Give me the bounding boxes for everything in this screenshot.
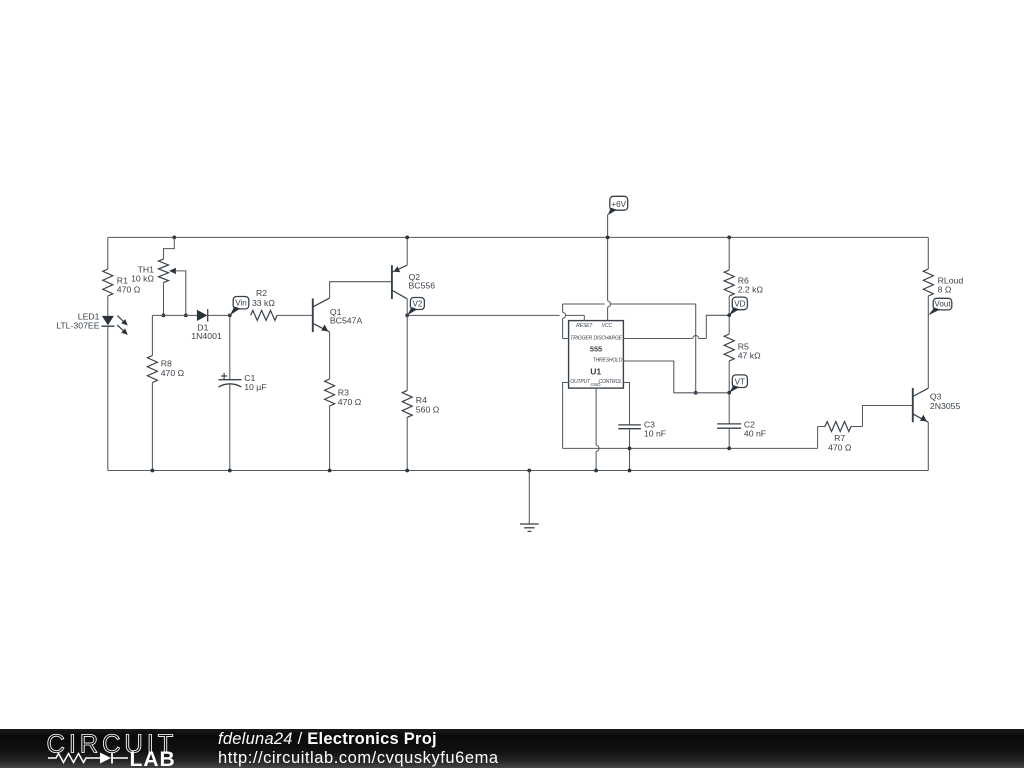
svg-text:R2: R2	[256, 288, 267, 298]
svg-text:LAB: LAB	[130, 748, 176, 769]
svg-text:33 kΩ: 33 kΩ	[252, 298, 275, 308]
svg-text:Vin: Vin	[235, 299, 247, 308]
svg-text:40 nF: 40 nF	[744, 429, 766, 439]
svg-text:Vout: Vout	[934, 300, 951, 309]
svg-text:RESET: RESET	[576, 323, 593, 329]
svg-text:BC547A: BC547A	[330, 316, 363, 326]
svg-text:+6V: +6V	[611, 200, 626, 209]
svg-text:10 nF: 10 nF	[644, 429, 666, 439]
svg-text:DISCHARGE: DISCHARGE	[594, 335, 623, 341]
svg-text:CONTROL: CONTROL	[598, 379, 622, 385]
svg-text:OUTPUT: OUTPUT	[570, 379, 591, 385]
svg-text:470 Ω: 470 Ω	[117, 285, 141, 295]
svg-text:2.2 kΩ: 2.2 kΩ	[738, 285, 764, 295]
svg-text:U1: U1	[590, 366, 601, 376]
svg-text:470 Ω: 470 Ω	[828, 442, 852, 452]
svg-text:10 µF: 10 µF	[244, 382, 266, 392]
svg-text:560 Ω: 560 Ω	[416, 404, 440, 414]
svg-text:TRIGGER: TRIGGER	[570, 335, 592, 341]
svg-text:VD: VD	[734, 300, 745, 309]
svg-text:8 Ω: 8 Ω	[938, 285, 952, 295]
svg-text:LTL-307EE: LTL-307EE	[56, 320, 100, 330]
svg-text:VCC: VCC	[602, 323, 613, 329]
svg-text:47 kΩ: 47 kΩ	[738, 351, 761, 361]
svg-text:2N3055: 2N3055	[930, 401, 961, 411]
svg-text:VT: VT	[735, 377, 745, 386]
svg-text:THRESHOLD: THRESHOLD	[593, 358, 623, 364]
svg-text:1N4001: 1N4001	[191, 331, 222, 341]
svg-text:10 kΩ: 10 kΩ	[131, 274, 154, 284]
svg-text:555: 555	[590, 345, 602, 354]
svg-text:V2: V2	[412, 299, 422, 308]
svg-text:BC556: BC556	[409, 281, 436, 291]
svg-text:470 Ω: 470 Ω	[161, 368, 185, 378]
svg-text:470 Ω: 470 Ω	[338, 397, 362, 407]
